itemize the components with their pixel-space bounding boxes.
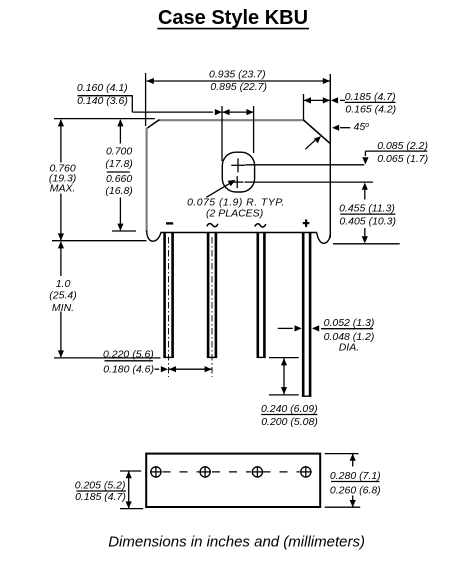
dimension 0.455/0.405 hole center to seating plane <box>339 183 396 244</box>
annotation 45 degrees <box>332 121 369 133</box>
body bottom edge <box>161 232 317 234</box>
dimension 1.0 MIN lead length <box>49 241 76 357</box>
extension line upper cross right <box>245 164 364 166</box>
svg-text:0.240 (6.09): 0.240 (6.09) <box>261 403 318 415</box>
extension tick 0.700 bottom <box>112 230 136 232</box>
dimension 0.160/0.140 hole diameter <box>77 82 254 115</box>
lead 4 (positive, long) <box>302 233 312 396</box>
lead 1 centerline <box>168 237 170 377</box>
svg-text:0.075 (1.9) R. TYP.: 0.075 (1.9) R. TYP. <box>187 197 285 209</box>
dimension 0.205/0.185 bottom view <box>75 471 143 509</box>
body top edge <box>159 119 304 121</box>
extension line seating plane right <box>333 243 400 245</box>
lead 2 centerline <box>211 237 213 377</box>
svg-text:0.180 (4.6): 0.180 (4.6) <box>103 364 154 376</box>
svg-text:(16.8): (16.8) <box>105 185 132 197</box>
svg-text:0.405 (10.3): 0.405 (10.3) <box>339 216 396 228</box>
dimension 0.935/0.895 overall width <box>147 68 330 93</box>
lead 1 (negative) <box>163 233 174 358</box>
svg-text:0.160 (4.1): 0.160 (4.1) <box>77 82 128 94</box>
svg-text:0.700: 0.700 <box>106 146 132 158</box>
bottom view pin 4 circle <box>300 466 312 478</box>
svg-text:0.200 (5.08): 0.200 (5.08) <box>261 416 318 428</box>
svg-text:0.085 (2.2): 0.085 (2.2) <box>377 140 428 152</box>
svg-text:0.280 (7.1): 0.280 (7.1) <box>330 470 381 482</box>
body top-left chamfer <box>147 120 160 129</box>
svg-text:0.052 (1.3): 0.052 (1.3) <box>324 317 375 329</box>
extension line lower cross right <box>245 181 374 183</box>
extension line left vertical <box>145 73 147 126</box>
hole upper cross <box>231 158 245 172</box>
svg-text:Dimensions in inches and (mill: Dimensions in inches and (millimeters) <box>108 534 365 551</box>
dimension 0.760 MAX height <box>49 119 76 240</box>
bottom view centerline dashes <box>163 471 300 473</box>
dimension 0.240/0.200 positive lead extra length <box>261 358 318 428</box>
svg-text:0.260 (6.8): 0.260 (6.8) <box>330 484 381 496</box>
svg-text:MIN.: MIN. <box>52 302 74 314</box>
extension line lead bottom left <box>54 357 161 359</box>
svg-text:0.935 (23.7): 0.935 (23.7) <box>209 68 266 80</box>
extension line top horizontal <box>54 118 155 120</box>
lead 3 (AC) <box>257 233 266 358</box>
plus polarity mark <box>303 219 310 227</box>
dimension 0.700/0.660 <box>105 119 132 231</box>
extension line body bottom left <box>52 240 147 242</box>
dimension 0.085/0.065 hole cross offset <box>362 140 428 165</box>
dimension 0.052/0.048 DIA lead diameter <box>278 317 375 353</box>
svg-text:Case Style KBU: Case Style KBU <box>158 7 308 29</box>
svg-text:0.185 (4.7): 0.185 (4.7) <box>345 91 396 103</box>
svg-text:(2 PLACES): (2 PLACES) <box>206 208 263 220</box>
leader arrow at chamfer <box>305 136 321 149</box>
tilde polarity mark 1 <box>207 223 218 226</box>
svg-text:0.165 (4.2): 0.165 (4.2) <box>345 103 396 115</box>
svg-text:0.185 (4.7): 0.185 (4.7) <box>75 491 126 503</box>
svg-text:(17.8): (17.8) <box>105 158 132 170</box>
body left foot dip <box>147 231 161 242</box>
bottom view pin 1 circle <box>150 466 162 478</box>
bottom view pin 2 circle <box>199 466 211 478</box>
body left edge <box>146 128 148 232</box>
minus polarity mark <box>166 222 173 224</box>
tilde polarity mark 2 <box>255 224 266 227</box>
svg-text:0.455 (11.3): 0.455 (11.3) <box>339 203 395 215</box>
extension line hole right <box>253 106 255 153</box>
extension line chamfer start <box>303 94 305 120</box>
mounting hole <box>222 152 254 192</box>
extension tick lead4 bottom <box>269 394 299 396</box>
dimension 0.220/0.180 lead pitch <box>103 348 212 375</box>
bottom view outline <box>146 454 320 507</box>
dimension 0.280/0.260 bottom view <box>325 454 381 508</box>
body right foot dip <box>317 233 331 244</box>
bottom view pin 3 circle <box>252 466 264 478</box>
dimension 0.185/0.165 chamfer width <box>304 91 396 115</box>
svg-text:1.0: 1.0 <box>56 278 71 290</box>
extension tick lead3 bottom <box>269 357 299 359</box>
svg-text:MAX.: MAX. <box>50 183 76 195</box>
extension line hole left <box>221 106 223 161</box>
body top-right chamfer <box>303 120 330 144</box>
svg-text:0.660: 0.660 <box>106 173 132 185</box>
svg-text:45o: 45o <box>354 121 370 133</box>
lead 2 (AC) <box>207 233 217 358</box>
title Case Style KBU <box>157 7 309 29</box>
leader 0.075 R TYP to hole radius <box>187 180 285 220</box>
svg-text:(25.4): (25.4) <box>49 289 76 301</box>
svg-text:0.205 (5.2): 0.205 (5.2) <box>75 480 126 492</box>
svg-text:0.220 (5.6): 0.220 (5.6) <box>103 348 154 360</box>
svg-text:DIA.: DIA. <box>339 341 359 353</box>
svg-text:0.065 (1.7): 0.065 (1.7) <box>377 153 428 165</box>
svg-text:0.140 (3.6): 0.140 (3.6) <box>77 95 128 107</box>
hole lower cross <box>231 176 243 188</box>
body right edge with extension above <box>329 74 331 238</box>
svg-text:0.895 (22.7): 0.895 (22.7) <box>210 81 267 93</box>
